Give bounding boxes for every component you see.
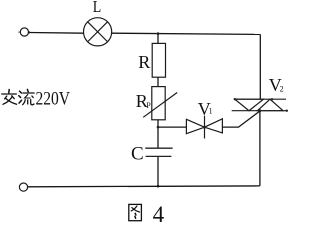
svg-text:4: 4: [153, 202, 165, 227]
wire triac down to bottom-right corner: [259, 111, 261, 186]
bottom wire: [28, 185, 260, 188]
terminal top-left: [20, 28, 28, 36]
svg-text:220V: 220V: [36, 89, 71, 109]
caption hanzi tu (figure): [129, 204, 142, 220]
svg-text:1: 1: [209, 107, 213, 116]
node junction bottom of C branch: [157, 185, 160, 188]
triac V2: [232, 99, 287, 111]
wire R to RP: [157, 77, 159, 86]
label AC 220V: hanzi jiao: [2, 90, 17, 105]
svg-text:R: R: [138, 52, 150, 72]
capacitor C: [145, 148, 172, 156]
svg-text:P: P: [146, 101, 151, 110]
wire junction down to R: [157, 34, 159, 44]
wire lamp to top-right corner: [112, 33, 261, 34]
svg-text:L: L: [93, 0, 102, 16]
node junction top of R branch: [157, 32, 160, 35]
junction dot at top terminal: [28, 31, 30, 33]
wire capacitor to bottom wire: [157, 156, 159, 186]
wire diac to triac gate: [222, 111, 259, 127]
node dots triac: [234, 98, 236, 100]
diac V1: [186, 116, 222, 139]
potentiometer RP: [143, 87, 177, 120]
node junction RP-C-V1: [157, 126, 160, 129]
svg-text:2: 2: [280, 85, 284, 94]
terminal stub left of top terminal: [18, 31, 20, 33]
node dot diac center: [203, 126, 206, 129]
svg-text:C: C: [131, 143, 144, 164]
wire RP down to capacitor: [157, 120, 159, 148]
terminal bottom-left: [19, 183, 27, 191]
wire top-right corner down to triac: [259, 34, 261, 99]
label AC 220V: hanzi liu: [19, 89, 34, 104]
wire junction to diac V1: [158, 126, 186, 128]
lamp L: [84, 18, 112, 46]
wire terminal to lamp: [29, 32, 83, 35]
resistor R: [152, 43, 165, 77]
